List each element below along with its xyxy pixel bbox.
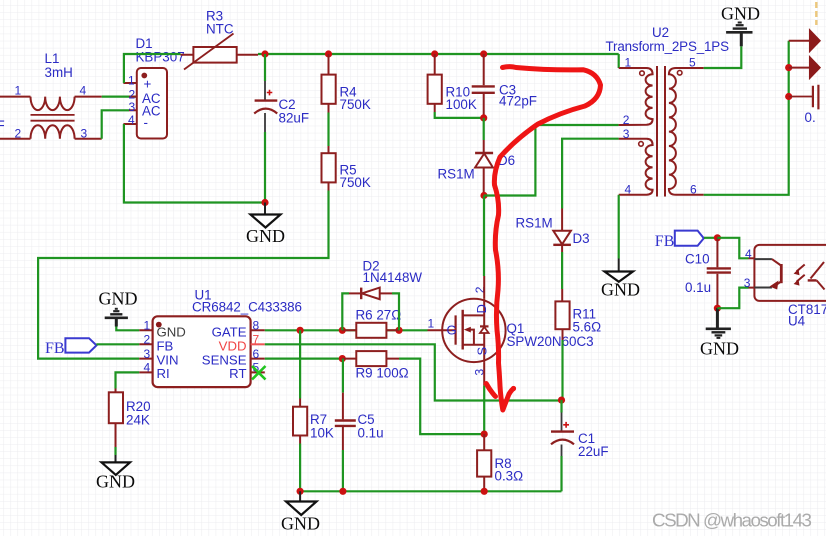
- junction rail/R8: [481, 488, 488, 495]
- resistor R5: [322, 146, 371, 191]
- wire U1 pin7 VDD row: [265, 344, 562, 400]
- svg-text:GND: GND: [721, 4, 760, 24]
- wire R9 to Q1 source node: [399, 359, 484, 435]
- junction C3/top rail: [480, 50, 487, 57]
- junction C3 bottom: [480, 114, 487, 121]
- svg-text:U2: U2: [652, 25, 669, 40]
- svg-text:7: 7: [253, 333, 260, 347]
- junction R10/top rail: [431, 50, 438, 57]
- svg-text:L1: L1: [45, 51, 60, 66]
- junction D6 bottom / drain node: [480, 192, 487, 199]
- output diode 1 (clipped at edge): [789, 30, 820, 51]
- net flag FB right: [655, 231, 704, 250]
- svg-text:G: G: [447, 323, 457, 338]
- svg-text:SPW20N60C3: SPW20N60C3: [507, 334, 594, 349]
- svg-text:1: 1: [144, 319, 151, 333]
- sense resistor R8: [477, 434, 523, 491]
- wire C10 bottom to U4 pin3: [717, 288, 748, 309]
- bridge rectifier D1: [123, 36, 184, 139]
- diode D6: [438, 118, 516, 196]
- junction R4/top rail: [325, 50, 332, 57]
- primary winding 2 (pins 3-4): [619, 139, 653, 195]
- secondary winding (pins 5-6): [669, 68, 704, 195]
- wire drain node to transformer pin2: [484, 125, 619, 196]
- junction VDD/C1/R11: [558, 397, 565, 404]
- phase dot pin3: [639, 142, 644, 147]
- svg-text:R9 100Ω: R9 100Ω: [356, 366, 409, 381]
- svg-text:RS1M: RS1M: [438, 167, 475, 182]
- net flag FB left: [45, 338, 97, 357]
- resistor R11: [555, 301, 601, 400]
- yellow highlight tick top edge: [815, 2, 817, 25]
- junction source/R8: [481, 431, 488, 438]
- svg-text:24K: 24K: [126, 413, 150, 428]
- resistor R7: [293, 399, 334, 444]
- phase dot pin5: [677, 71, 682, 76]
- red freehand annotation stroke: [486, 67, 600, 410]
- svg-text:U4: U4: [788, 314, 806, 329]
- wire L1 pin3 to D1 pin3: [102, 110, 129, 139]
- svg-text:2: 2: [623, 113, 630, 127]
- wire C5 column from SENSE: [342, 359, 344, 393]
- wire R5 bottom to VIN net: [38, 191, 328, 359]
- wire U1 pin4 to R20: [116, 372, 140, 388]
- wire U1 pin6 SENSE row: [265, 358, 343, 360]
- wire D1 pin1 up to R3: [124, 54, 181, 83]
- svg-text:GND: GND: [246, 226, 285, 246]
- wire R7 bottom to rail: [299, 444, 301, 492]
- svg-text:10K: 10K: [310, 426, 334, 441]
- svg-text:3: 3: [144, 347, 151, 361]
- junction rail/R7: [297, 488, 304, 495]
- svg-text:2: 2: [144, 333, 151, 347]
- gate pin lead of Q1: [428, 329, 456, 331]
- wire U2 pin5 to GND: [704, 46, 742, 68]
- thermistor R3: [181, 9, 259, 70]
- wire FB flag to U1 pin2: [96, 343, 139, 345]
- svg-text:D: D: [474, 304, 489, 313]
- optocoupler U4 (clipped at edge): [744, 245, 826, 329]
- annotation end blob: [511, 386, 516, 391]
- svg-text:4: 4: [144, 361, 151, 375]
- junction C10 top: [714, 234, 721, 241]
- junction C2/neg rail: [261, 199, 268, 206]
- svg-text:GND: GND: [96, 472, 135, 492]
- svg-text:FB: FB: [157, 339, 174, 354]
- wire U2 pin4 to GND: [618, 195, 620, 259]
- svg-text:0.: 0.: [805, 110, 816, 125]
- svg-text:1: 1: [15, 84, 22, 98]
- wire R4 to R5: [327, 113, 329, 147]
- wire R7 column from GATE: [299, 330, 301, 398]
- svg-text:FB: FB: [45, 340, 65, 357]
- wire L1 pin4 to D1 pin2: [102, 95, 137, 97]
- ground GND5 under R20: [96, 455, 135, 492]
- junction rail/C5: [339, 488, 346, 495]
- svg-text:4: 4: [625, 182, 632, 196]
- svg-text:RI: RI: [157, 366, 170, 381]
- svg-text:F: F: [0, 118, 5, 133]
- junction GATE/R6 right: [395, 327, 402, 334]
- resistor R6: [342, 308, 401, 338]
- svg-text:0.1u: 0.1u: [358, 426, 384, 441]
- svg-text:6: 6: [253, 347, 260, 361]
- svg-text:GND: GND: [157, 325, 186, 340]
- svg-text:VDD: VDD: [219, 339, 247, 354]
- svg-text:RT: RT: [229, 366, 246, 381]
- ground GND7 under C10 (earth style): [700, 308, 739, 358]
- wire D1 pin4 down to negative rail: [124, 124, 265, 203]
- svg-text:6: 6: [690, 182, 697, 196]
- capacitor C5: [335, 393, 384, 492]
- svg-text:3mH: 3mH: [45, 65, 73, 80]
- wire FB flag to C10 top: [704, 237, 717, 239]
- svg-text:3: 3: [744, 276, 751, 290]
- svg-text:-: -: [144, 115, 148, 130]
- svg-text:5.6Ω: 5.6Ω: [573, 320, 602, 335]
- svg-text:NTC: NTC: [206, 22, 234, 37]
- wire GND4 to U1 pin1: [116, 327, 139, 331]
- junction output column row3: [785, 93, 792, 100]
- wire U2 pin3 to D3: [562, 139, 619, 209]
- wire U2 pin6 to output column: [704, 41, 789, 195]
- svg-text:4: 4: [80, 84, 87, 98]
- output diode 2 (clipped at edge): [789, 57, 820, 78]
- svg-text:GND: GND: [99, 289, 138, 309]
- svg-text:1N4148W: 1N4148W: [363, 270, 423, 285]
- no-connect X on pin RT: [252, 366, 266, 380]
- junction C2/top: [261, 50, 268, 57]
- capacitor C1: [551, 400, 609, 491]
- svg-text:22uF: 22uF: [578, 444, 609, 459]
- wire U1 pin8 GATE row: [265, 329, 428, 331]
- svg-text:5: 5: [689, 56, 696, 70]
- MOSFET Q1: [442, 299, 593, 362]
- svg-text:1: 1: [428, 317, 435, 331]
- svg-text:2: 2: [15, 127, 22, 141]
- output capacitor (clipped at edge): [789, 85, 819, 125]
- svg-text:750K: 750K: [340, 175, 371, 190]
- svg-text:CSDN @whaosoft143: CSDN @whaosoft143: [652, 510, 812, 531]
- svg-text:0.3Ω: 0.3Ω: [495, 469, 524, 484]
- svg-text:3: 3: [623, 127, 630, 141]
- svg-text:GATE: GATE: [212, 325, 247, 340]
- svg-text:GND: GND: [700, 339, 739, 359]
- ground GND2 top right (earth style): [721, 4, 760, 47]
- capacitor C3: [472, 54, 537, 118]
- svg-text:RS1M: RS1M: [516, 216, 553, 231]
- ground GND6 under rail: [281, 491, 320, 533]
- L1 labels: [15, 51, 88, 141]
- junction output column row2: [785, 64, 792, 71]
- svg-text:1: 1: [625, 56, 632, 70]
- core: [657, 66, 665, 197]
- svg-text:KBP307: KBP307: [136, 50, 185, 65]
- svg-text:+: +: [144, 77, 152, 92]
- controller U1 CR6842: [139, 288, 302, 388]
- wire Q1 source down: [483, 362, 485, 386]
- svg-text:C10: C10: [685, 252, 710, 267]
- ground GND3 under U2 pin4: [601, 259, 640, 300]
- capacitor C10: [685, 238, 731, 308]
- svg-text:4: 4: [745, 247, 752, 261]
- svg-text:750K: 750K: [340, 97, 371, 112]
- resistor R4: [322, 54, 371, 113]
- svg-text:3: 3: [81, 127, 88, 141]
- svg-text:4: 4: [128, 113, 135, 127]
- capacitor C2: [254, 54, 309, 203]
- svg-text:8: 8: [253, 319, 260, 333]
- svg-text:S: S: [474, 347, 489, 356]
- junction GATE/R6 left: [339, 327, 346, 334]
- junction SENSE/R9 left: [339, 355, 346, 362]
- phase dot pin1: [640, 71, 645, 76]
- svg-text:3: 3: [129, 100, 136, 114]
- svg-text:CR6842_C433386: CR6842_C433386: [192, 300, 302, 315]
- svg-text:472pF: 472pF: [499, 94, 537, 109]
- diode D3: [516, 209, 590, 302]
- resistor R20: [109, 389, 151, 448]
- svg-text:D3: D3: [573, 231, 590, 246]
- bottom ground rail: [300, 490, 561, 492]
- wire R20 to GND5: [114, 447, 116, 455]
- svg-text:GND: GND: [281, 514, 320, 534]
- svg-text:R6 27Ω: R6 27Ω: [356, 308, 402, 323]
- svg-text:82uF: 82uF: [279, 111, 310, 126]
- top rail wire: [258, 53, 619, 55]
- common-mode choke L1: [0, 97, 102, 139]
- ground GND1 under C2: [246, 203, 285, 247]
- wire C10 top to U4 pin4: [717, 238, 748, 258]
- svg-text:FB: FB: [655, 233, 675, 250]
- svg-text:Transform_2PS_1PS: Transform_2PS_1PS: [606, 39, 730, 54]
- svg-text:100K: 100K: [446, 97, 477, 112]
- diode D2 parallel to R6: [342, 259, 422, 331]
- svg-text:GND: GND: [601, 280, 640, 300]
- wire R10 bottom to C3 bottom: [435, 112, 484, 118]
- junction C10 bottom: [714, 305, 721, 312]
- primary winding 1 (pins 1-2): [619, 68, 653, 125]
- junction GATE/R7 column: [297, 327, 304, 334]
- resistor R9: [342, 351, 408, 380]
- svg-text:1: 1: [128, 74, 135, 88]
- svg-text:0.1u: 0.1u: [685, 280, 711, 295]
- ground GND4 above U1 pin1 (earth style): [99, 289, 138, 327]
- wire top rail down to U2 pin1: [618, 54, 620, 68]
- transformer U2: [606, 25, 730, 197]
- resistor R10: [428, 54, 477, 112]
- wire drain node to Q1 top: [483, 196, 485, 277]
